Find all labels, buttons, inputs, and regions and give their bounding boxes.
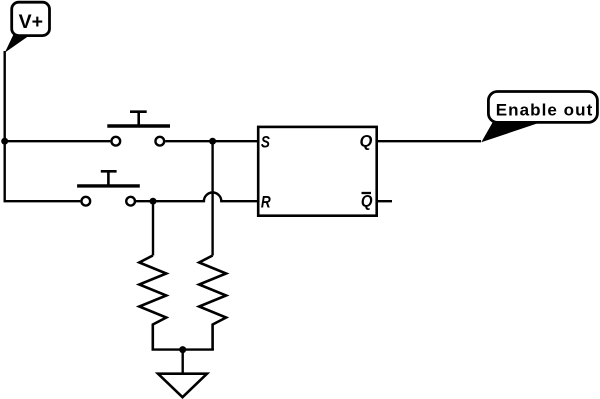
IC U1 SR latch body <box>258 127 377 216</box>
flag Enable out <box>481 92 597 143</box>
svg-text:Q: Q <box>360 131 373 150</box>
wire: Q output to Enable out flag <box>377 140 481 142</box>
power flag V+ <box>5 2 50 52</box>
svg-text:S: S <box>261 133 271 152</box>
pushbutton SW2 (reset) <box>77 171 140 205</box>
svg-text:Enable out: Enable out <box>496 101 593 120</box>
pushbutton SW1 (set) <box>107 112 170 146</box>
node D junction dot at resistor bottoms <box>179 346 186 353</box>
node B junction dot (S net / R2 top) <box>209 138 216 145</box>
resistor R1 <box>139 256 166 350</box>
wire: V+ vertical rail down left side, turning right to SW2 left terminal <box>5 51 81 201</box>
wire: Q-bar output stub <box>377 200 392 202</box>
svg-text:Q: Q <box>361 193 373 211</box>
svg-text:V+: V+ <box>19 11 43 33</box>
node A junction dot on rail at top row <box>1 138 8 145</box>
wire: joining resistor bottoms <box>152 348 214 350</box>
wire: node D down to ground <box>181 350 183 374</box>
wire: SW1 right terminal to S input <box>165 140 259 142</box>
wire: node B down to resistor R2 <box>211 141 213 255</box>
resistor R2 <box>199 256 226 350</box>
wire: SW2 right terminal to R input with hop over R2 net <box>136 193 259 202</box>
ground <box>158 374 207 398</box>
wire: node C down to resistor R1 <box>152 201 154 255</box>
svg-text:R: R <box>261 193 271 212</box>
node C junction dot (R net / R1 top) <box>150 198 157 205</box>
wire: top row from rail to SW1 left terminal <box>5 140 111 142</box>
